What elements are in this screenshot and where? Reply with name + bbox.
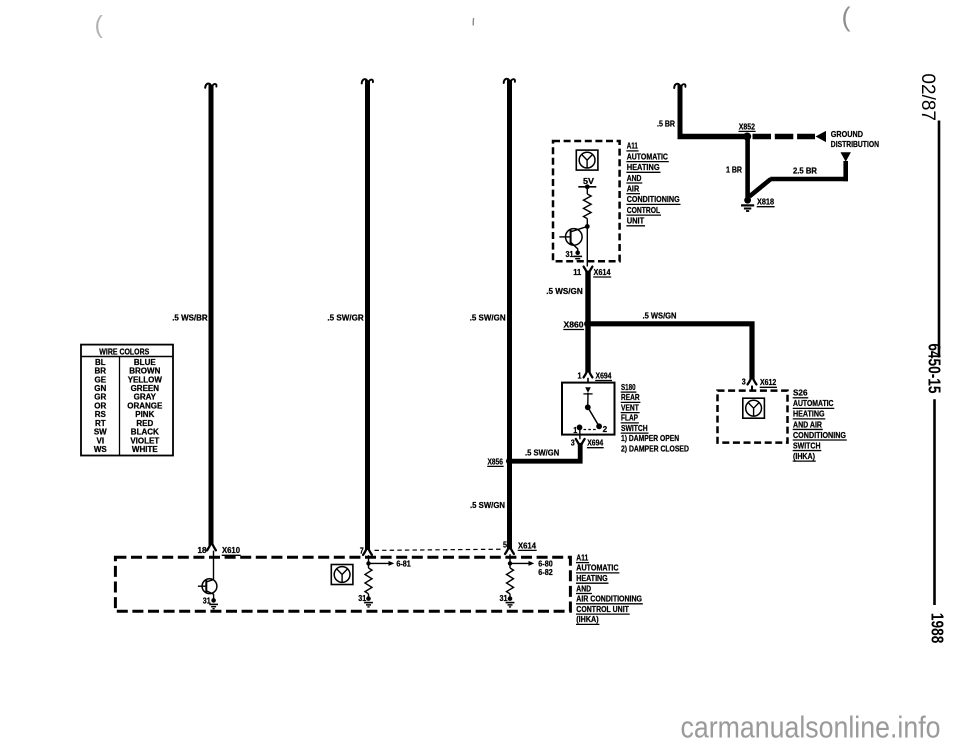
svg-text:.5 WS/GN: .5 WS/GN xyxy=(546,286,583,296)
svg-text:.5 SW/GR: .5 SW/GR xyxy=(327,312,363,322)
svg-text:5V: 5V xyxy=(583,177,595,186)
svg-text:REAR: REAR xyxy=(621,392,640,402)
svg-text:1) DAMPER OPEN: 1) DAMPER OPEN xyxy=(621,433,679,443)
svg-text:.5 SW/GN: .5 SW/GN xyxy=(470,312,506,322)
svg-text:CONTROL UNIT: CONTROL UNIT xyxy=(576,605,629,614)
svg-text:HEATING: HEATING xyxy=(576,574,607,583)
svg-text:1 BR: 1 BR xyxy=(726,165,742,175)
svg-text:PINK: PINK xyxy=(135,410,154,419)
svg-text:SWITCH: SWITCH xyxy=(793,440,821,450)
svg-text:A11: A11 xyxy=(576,553,588,562)
svg-text:X612: X612 xyxy=(760,377,777,387)
svg-text:18: 18 xyxy=(198,546,208,555)
svg-text:AND AIR: AND AIR xyxy=(793,419,822,429)
svg-text:WIRE COLORS: WIRE COLORS xyxy=(99,346,149,356)
svg-text:ORANGE: ORANGE xyxy=(127,401,163,410)
svg-text:RS: RS xyxy=(95,410,107,419)
svg-text:X694: X694 xyxy=(596,370,612,380)
svg-text:3: 3 xyxy=(571,439,575,448)
svg-text:YELLOW: YELLOW xyxy=(128,375,163,384)
svg-text:(IHKA): (IHKA) xyxy=(793,451,815,461)
svg-text:31: 31 xyxy=(566,250,574,259)
svg-text:S26: S26 xyxy=(793,388,808,398)
svg-text:X856: X856 xyxy=(488,456,504,466)
svg-text:2: 2 xyxy=(603,425,608,434)
svg-text:X852: X852 xyxy=(739,121,755,131)
svg-text:RED: RED xyxy=(136,419,153,428)
svg-text:SWITCH: SWITCH xyxy=(621,423,648,433)
svg-text:7: 7 xyxy=(360,547,364,556)
svg-text:GN: GN xyxy=(94,384,106,393)
svg-text:.5 WS/BR: .5 WS/BR xyxy=(172,312,208,322)
svg-text:carmanualsonline.info: carmanualsonline.info xyxy=(681,709,941,744)
svg-text:X614: X614 xyxy=(518,540,536,550)
svg-text:5: 5 xyxy=(503,540,507,549)
svg-text:GROUND: GROUND xyxy=(831,129,863,139)
svg-text:31: 31 xyxy=(500,594,508,603)
svg-text:AND: AND xyxy=(627,173,642,183)
svg-text:WHITE: WHITE xyxy=(132,445,158,454)
svg-text:X610: X610 xyxy=(222,545,240,555)
svg-text:X694: X694 xyxy=(587,438,603,448)
svg-text:S180: S180 xyxy=(621,382,636,392)
svg-text:WS: WS xyxy=(94,445,108,454)
svg-text:.5 SW/GN: .5 SW/GN xyxy=(470,500,505,510)
svg-text:AUTOMATIC: AUTOMATIC xyxy=(576,564,618,573)
svg-text:.5 SW/GN: .5 SW/GN xyxy=(525,447,559,457)
svg-text:GR: GR xyxy=(94,393,106,402)
svg-text:BL: BL xyxy=(95,358,106,367)
svg-text:GE: GE xyxy=(95,375,107,384)
svg-text:.5 BR: .5 BR xyxy=(657,118,675,128)
svg-text:HEATING: HEATING xyxy=(793,409,825,419)
svg-text:VIOLET: VIOLET xyxy=(130,436,159,445)
svg-text:11: 11 xyxy=(573,268,582,277)
svg-text:FLAP: FLAP xyxy=(621,413,638,423)
svg-text:AIR: AIR xyxy=(627,184,640,194)
svg-text:UNIT: UNIT xyxy=(627,216,645,226)
svg-text:VI: VI xyxy=(97,436,105,445)
svg-text:(: ( xyxy=(95,11,104,39)
svg-text:AND: AND xyxy=(576,584,591,593)
svg-text:3: 3 xyxy=(742,377,746,386)
svg-text:GRAY: GRAY xyxy=(134,393,157,402)
svg-text:X818: X818 xyxy=(757,197,774,207)
svg-text:OR: OR xyxy=(94,401,106,410)
svg-text:GREEN: GREEN xyxy=(131,384,160,393)
svg-text:VENT: VENT xyxy=(621,402,639,412)
svg-text:BLUE: BLUE xyxy=(134,358,156,367)
svg-text:AIR CONDITIONING: AIR CONDITIONING xyxy=(576,595,642,604)
svg-text:02/87: 02/87 xyxy=(917,73,938,121)
svg-text:DISTRIBUTION: DISTRIBUTION xyxy=(831,139,879,149)
svg-text:RT: RT xyxy=(95,419,106,428)
svg-text:(IHKA): (IHKA) xyxy=(576,615,599,624)
svg-text:2) DAMPER CLOSED: 2) DAMPER CLOSED xyxy=(621,443,689,453)
svg-text:31: 31 xyxy=(358,594,366,603)
svg-text:BLACK: BLACK xyxy=(131,428,159,437)
svg-text:X860: X860 xyxy=(564,319,584,329)
svg-text:31: 31 xyxy=(203,596,211,605)
svg-text:6450-15: 6450-15 xyxy=(924,343,943,393)
svg-text:BR: BR xyxy=(95,367,107,376)
svg-text:.5 WS/GN: .5 WS/GN xyxy=(643,311,677,321)
svg-text:X614: X614 xyxy=(594,267,611,277)
svg-text:2.5 BR: 2.5 BR xyxy=(793,165,817,175)
svg-text:AUTOMATIC: AUTOMATIC xyxy=(627,151,668,161)
svg-text:6-82: 6-82 xyxy=(538,568,553,577)
svg-text:AUTOMATIC: AUTOMATIC xyxy=(793,398,834,408)
svg-text:CONTROL: CONTROL xyxy=(627,205,661,215)
svg-text:BROWN: BROWN xyxy=(129,367,160,376)
svg-text:1: 1 xyxy=(578,371,582,380)
svg-text:CONDITIONING: CONDITIONING xyxy=(627,194,680,204)
svg-text:HEATING: HEATING xyxy=(627,162,660,172)
svg-text:1988: 1988 xyxy=(927,613,946,644)
svg-text:A11: A11 xyxy=(627,141,638,151)
svg-text:6-81: 6-81 xyxy=(396,559,411,568)
svg-text:SW: SW xyxy=(94,428,107,437)
svg-text:1: 1 xyxy=(573,426,577,435)
svg-text:CONDITIONING: CONDITIONING xyxy=(793,430,846,440)
svg-text:(: ( xyxy=(842,2,851,32)
